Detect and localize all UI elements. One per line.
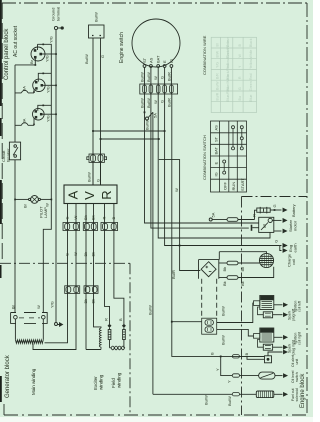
CDI connector 2way	[202, 318, 217, 334]
block border: generator top y=263	[0, 262, 130, 264]
svg-text:Control panel block: Control panel block	[4, 28, 10, 80]
svg-text:Yellow: Yellow	[249, 59, 253, 69]
svg-text:Bu/R: Bu/R	[216, 92, 220, 100]
connector row 2 : pairs	[65, 286, 98, 294]
svg-text:LAMP: LAMP	[43, 207, 48, 218]
svg-text:AS: AS	[214, 125, 219, 131]
wire: W from AVR pin2 to main winding tap	[33, 208, 76, 350]
main winding terminal box	[11, 313, 48, 324]
pilot lamp	[31, 196, 39, 204]
svg-text:Bu/R: Bu/R	[166, 98, 171, 107]
svg-text:coil left: coil left	[298, 301, 302, 312]
svg-text:G: G	[65, 216, 70, 219]
wire: exciter winding right lead	[94, 208, 102, 328]
block border: bottom edge	[4, 414, 307, 416]
block border: right edge	[306, 3, 308, 416]
pilot lamp right wire to bus	[41, 198, 52, 200]
OFF column link E-IG	[223, 162, 225, 173]
charge coil wire lower with fuse	[219, 277, 227, 279]
svg-text:unit: unit	[295, 359, 299, 365]
svg-text:OFF: OFF	[223, 181, 228, 190]
svg-text:AS: AS	[148, 57, 153, 63]
svg-text:Bu/W: Bu/W	[216, 81, 220, 90]
svg-text:coil: coil	[291, 259, 296, 265]
block border: left edge	[1, 3, 3, 262]
svg-text:ST: ST	[142, 57, 147, 63]
switch pin E	[163, 65, 166, 68]
ignition coil right	[260, 328, 274, 342]
svg-text:V: V	[82, 191, 97, 200]
svg-text:Bu/W: Bu/W	[94, 12, 99, 22]
svg-text:W: W	[153, 100, 158, 104]
AVR box	[64, 185, 117, 204]
wire: R lead to field	[105, 208, 110, 324]
svg-text:plug right: plug right	[292, 340, 296, 354]
svg-text:Bk: Bk	[91, 215, 96, 220]
socket 2 top pin wire to Y/G bus	[38, 73, 51, 81]
charge coil wire upper with fuse	[219, 262, 227, 264]
field slip ring left	[109, 328, 111, 330]
svg-text:Bu/R: Bu/R	[166, 72, 171, 81]
AVR pins bottom stubs	[68, 204, 114, 209]
pin leads to connector	[145, 67, 172, 94]
branch to CDI connector	[172, 321, 202, 323]
svg-text:Battery: Battery	[291, 204, 296, 217]
fuse 1 on socket2 feed	[15, 92, 34, 94]
wire: G crossover to engine switch	[93, 130, 165, 132]
junction dots middle	[144, 111, 181, 322]
main winding coil	[15, 340, 43, 344]
svg-text:Bu/W: Bu/W	[140, 72, 145, 82]
svg-text:BAT: BAT	[156, 55, 161, 63]
junction dot oil	[220, 356, 222, 358]
starter brush	[251, 225, 253, 231]
svg-text:W: W	[73, 252, 78, 256]
svg-text:motor: motor	[293, 220, 298, 231]
svg-text:Bk: Bk	[83, 252, 88, 257]
svg-text:G: G	[65, 253, 70, 256]
block border: control panel top	[2, 2, 307, 4]
svg-text:G: G	[96, 179, 101, 182]
svg-text:M: M	[262, 224, 267, 228]
svg-text:Y/G: Y/G	[50, 301, 55, 308]
engine switch connector (5 way)	[140, 84, 178, 94]
svg-text:Y/G: Y/G	[49, 36, 54, 43]
svg-text:W: W	[45, 203, 50, 207]
svg-text:Bk: Bk	[240, 267, 245, 272]
wire ST down to starter feed	[145, 94, 259, 223]
svg-text:Bu/R: Bu/R	[171, 270, 176, 279]
spark plug left	[263, 312, 272, 318]
svg-text:Bu/W: Bu/W	[146, 98, 151, 108]
svg-text:Blue: Blue	[249, 94, 253, 101]
svg-text:Blue/Red: Blue/Red	[226, 87, 230, 101]
svg-text:Bk: Bk	[222, 267, 227, 272]
svg-text:Y: Y	[227, 380, 232, 383]
svg-text:Y/G: Y/G	[46, 86, 51, 93]
svg-text:Y/G: Y/G	[216, 62, 220, 68]
svg-text:COMBINATION WIRE: COMBINATION WIRE	[202, 35, 207, 75]
fuel cut feed wire	[153, 393, 232, 395]
junction dots left column	[14, 44, 57, 201]
svg-text:Engine block: Engine block	[300, 373, 306, 408]
oil level feed Y wire	[221, 356, 233, 375]
block border: engine block left x=241.5	[241, 197, 243, 416]
svg-text:B: B	[210, 352, 215, 355]
svg-text:B: B	[118, 318, 123, 321]
svg-text:terminal: terminal	[56, 7, 61, 21]
svg-text:R: R	[102, 217, 107, 220]
svg-text:Bu/W: Bu/W	[148, 305, 153, 315]
svg-text:Black: Black	[249, 38, 253, 47]
svg-text:RUN: RUN	[231, 182, 236, 191]
AVR top input wires	[93, 162, 101, 185]
svg-text:3A: 3A	[22, 118, 27, 123]
fuse on battery feed	[227, 218, 238, 222]
switch pin ST	[143, 65, 146, 68]
CDI dashed links	[201, 279, 203, 318]
wire: exciter winding left lead	[86, 208, 101, 350]
fuse 2 on socket3 feed	[15, 124, 34, 126]
field slip ring right	[123, 328, 125, 330]
engine earth arrows	[280, 244, 287, 247]
svg-text:Bk: Bk	[240, 281, 245, 286]
svg-text:G: G	[160, 100, 165, 103]
START column link AS-ST-BAT	[241, 127, 243, 148]
svg-text:Exciter: Exciter	[93, 376, 98, 390]
svg-text:W: W	[73, 216, 78, 220]
wire: Br feed from bus0	[15, 64, 35, 66]
wire AS down to starter brush	[151, 94, 249, 228]
svg-text:IG: IG	[214, 172, 219, 176]
wire: B lead to field	[114, 208, 124, 324]
oil level switch	[259, 372, 275, 379]
switch pin AS	[150, 65, 153, 68]
main winding leads	[15, 319, 43, 340]
socket 3 top pin wire to Y/G bus	[38, 105, 52, 111]
socket 1 (AC out, large)	[31, 47, 45, 61]
svg-text:G: G	[273, 240, 278, 243]
rectifier diamond	[201, 262, 216, 277]
svg-text:Bu/W: Bu/W	[140, 98, 145, 108]
svg-text:W: W	[174, 188, 179, 192]
wire Bu/W long to fuel cut solenoid	[152, 112, 154, 394]
svg-text:E: E	[162, 60, 167, 63]
battery feed wire with connector circle	[209, 218, 212, 221]
junction dots crossover	[92, 130, 165, 140]
wire BAT (W) down to starter bottom	[158, 94, 270, 238]
svg-text:winding: winding	[117, 372, 122, 388]
5A breaker on ST line	[146, 117, 149, 120]
ignition coil left	[260, 296, 274, 310]
socket 1 top pin wire	[37, 44, 39, 50]
svg-text:Bk: Bk	[91, 299, 96, 304]
svg-text:plug left: plug left	[292, 309, 296, 321]
field winding coil	[110, 348, 125, 350]
svg-text:breaker: breaker	[6, 148, 11, 162]
svg-text:Engine switch: Engine switch	[119, 32, 125, 63]
svg-text:Field: Field	[111, 378, 116, 388]
rectifier box	[199, 260, 219, 279]
wire: W crossover to engine switch	[101, 138, 159, 140]
svg-text:winding: winding	[99, 374, 104, 390]
ground terminal symbol	[54, 26, 57, 29]
circuit breaker CB box	[9, 142, 20, 160]
wire: Y/G bus x=51.3	[38, 44, 52, 312]
battery B1	[257, 208, 270, 212]
svg-text:Green: Green	[249, 81, 253, 91]
spark plug right	[263, 344, 272, 350]
svg-text:Bu/W: Bu/W	[84, 54, 89, 64]
svg-text:Bk: Bk	[83, 299, 88, 304]
svg-text:G: G	[160, 76, 165, 79]
svg-text:R: R	[104, 318, 109, 321]
svg-text:B: B	[244, 353, 249, 356]
svg-text:earth: earth	[293, 243, 298, 252]
svg-text:Bu/W: Bu/W	[221, 306, 226, 316]
wire: G from AVR pin1 to main winding right	[45, 208, 68, 343]
svg-text:Red: Red	[249, 74, 253, 80]
svg-text:3A: 3A	[22, 86, 27, 91]
svg-text:Y: Y	[215, 368, 220, 371]
svg-text:G: G	[100, 55, 105, 58]
wire: bus0 x=15 down to breaker and main winding	[14, 65, 16, 313]
wire E (G) down to engine earth	[165, 94, 280, 246]
socket 3 right pin wire to ground bus	[41, 113, 56, 115]
pilot lamp left wire	[15, 198, 29, 200]
svg-text:Bu: Bu	[238, 96, 242, 100]
block border: generator bottom-left corner	[3, 404, 5, 415]
socket 2 bottom pin wire	[33, 89, 35, 93]
svg-text:COMBINATION SWITCH: COMBINATION SWITCH	[202, 135, 207, 180]
ground spade terminal bottom	[55, 323, 58, 326]
svg-text:Br: Br	[23, 203, 28, 208]
RUN column link AS-BAT	[232, 127, 234, 148]
socket 3 bottom pin wire	[33, 118, 35, 125]
wire IG (Bu/R) down to CDI and oil alert	[172, 94, 265, 356]
svg-text:R: R	[99, 190, 114, 199]
svg-text:B/R: B/R	[216, 73, 220, 79]
battery output wire and arrow	[270, 209, 281, 211]
connector pair AVR input	[87, 154, 107, 162]
charge coil top link	[219, 252, 266, 260]
block border: generator right x=130	[129, 263, 131, 415]
svg-text:BAT: BAT	[214, 146, 219, 154]
engine switch circle	[132, 19, 180, 67]
svg-text:Bu/W: Bu/W	[221, 335, 226, 345]
svg-text:A: A	[66, 190, 81, 199]
svg-text:Bk: Bk	[83, 215, 88, 220]
svg-text:E: E	[214, 162, 219, 165]
exciter winding coil	[99, 328, 101, 350]
socket 3 (small)	[33, 108, 45, 120]
fuel cut solenoid	[256, 391, 274, 398]
svg-text:W: W	[36, 305, 41, 309]
svg-text:Y/G: Y/G	[46, 115, 51, 122]
svg-text:G: G	[272, 204, 277, 207]
wire W branch to rectifier	[159, 160, 201, 271]
svg-text:Bk: Bk	[91, 252, 96, 257]
svg-text:START: START	[240, 178, 245, 191]
socket 1 right pin wire to ground bus	[41, 53, 56, 55]
svg-text:Bu/W: Bu/W	[227, 396, 232, 406]
svg-text:IG: IG	[169, 59, 174, 63]
svg-text:5A: 5A	[153, 113, 158, 118]
svg-text:W: W	[153, 76, 158, 80]
oil alert unit	[265, 356, 272, 363]
svg-text:ST: ST	[214, 136, 219, 142]
svg-text:G: G	[238, 87, 242, 90]
svg-text:Bu/W: Bu/W	[146, 72, 151, 82]
connector row 1 under AVR : pair G/W	[63, 223, 118, 231]
svg-text:Bk: Bk	[222, 281, 227, 286]
svg-text:Bu/W: Bu/W	[145, 120, 150, 130]
svg-text:White: White	[249, 50, 253, 59]
svg-text:Main winding: Main winding	[31, 368, 36, 395]
CDI outputs to ignition coils	[217, 303, 253, 323]
starter motor box	[259, 217, 274, 232]
socket 1 bottom pin wire	[34, 58, 36, 65]
left edge scan bars	[0, 0, 2, 402]
svg-text:R: R	[252, 214, 257, 217]
svg-text:Br: Br	[11, 304, 16, 309]
oil alert feed wires	[232, 355, 239, 358]
socket 2 right pin wire to ground bus	[42, 84, 56, 86]
svg-text:coil right: coil right	[298, 332, 302, 345]
svg-text:switch: switch	[295, 372, 299, 382]
svg-text:Generator block: Generator block	[5, 354, 11, 398]
svg-text:AC out socket: AC out socket	[13, 25, 19, 57]
svg-text:B: B	[111, 217, 116, 220]
wire: ground bus x=56.5	[55, 30, 57, 322]
socket 2 (small)	[33, 79, 45, 91]
svg-text:Br: Br	[29, 59, 34, 64]
svg-text:5A: 5A	[211, 212, 216, 217]
starter output arrows	[272, 219, 281, 221]
block border: engine block top y=196	[242, 196, 308, 198]
charge coil	[259, 253, 273, 267]
switch pin IG	[170, 65, 173, 68]
svg-text:B/W: B/W	[216, 50, 220, 57]
svg-text:solenoid: solenoid	[295, 388, 299, 401]
svg-text:Bu/W: Bu/W	[87, 172, 92, 182]
field terminal diamonds	[108, 324, 126, 328]
svg-text:Y/G: Y/G	[45, 55, 50, 62]
switch pin BAT	[157, 65, 160, 68]
rectifier box (DC out) top	[89, 25, 105, 38]
wires from DC box down	[93, 38, 101, 185]
svg-text:Bu/W: Bu/W	[204, 395, 209, 405]
battery left lead	[255, 210, 257, 219]
